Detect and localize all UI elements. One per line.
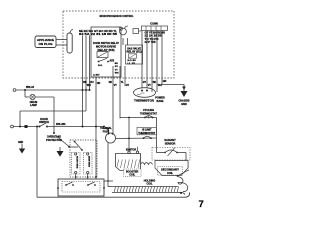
wire lamp branch drop (24, 90, 26, 97)
left main vertical (36, 127, 38, 198)
svg-text:WH: WH (115, 73, 119, 75)
svg-text:PROTECTOR: PROTECTOR (46, 139, 62, 142)
wire stub to thermal fuse left terminal (108, 128, 110, 134)
svg-text:CONN: CONN (150, 22, 158, 26)
svg-text:MAIN WDG: MAIN WDG (88, 156, 91, 167)
svg-text:SENSOR: SENSOR (165, 143, 176, 146)
thermistor (134, 88, 156, 103)
wire to power base 2 (156, 78, 158, 92)
svg-text:COIL: COIL (147, 183, 153, 186)
svg-text:GND: GND (181, 103, 187, 106)
wire GY stub (124, 66, 126, 86)
svg-text:64 5A 22 31 18 60 55: 64 5A 22 31 18 60 55 (79, 32, 118, 36)
svg-text:THERMOSTAT: THERMOSTAT (138, 132, 155, 135)
connector P1 tail (70, 30, 73, 34)
svg-text:BASE: BASE (157, 100, 164, 103)
terminal N (11, 125, 14, 128)
secondary loops (177, 170, 189, 195)
wire YL to cycling thermostat (119, 66, 121, 119)
connector strip (142, 26, 168, 30)
svg-text:7: 7 (199, 199, 204, 210)
connector P1 pill (67, 33, 72, 53)
bottom main wire (37, 193, 190, 198)
wire relay A to relay B (1) (122, 38, 124, 45)
wire BK to door switch junction (82, 36, 84, 127)
ignitor (116, 147, 153, 171)
radiant sensor (152, 139, 190, 168)
svg-text:N.O.: N.O. (98, 65, 103, 67)
wire plug to connector (upper) (56, 39, 67, 41)
svg-text:RELAY (K1): RELAY (K1) (127, 51, 142, 54)
svg-text:GY: GY (143, 81, 147, 84)
wire conn pin 2 (146, 30, 148, 78)
svg-text:SWITCH: SWITCH (39, 121, 49, 124)
svg-text:GY: GY (115, 66, 119, 68)
wire door switch to thermal fuse (47, 126, 104, 128)
svg-text:GY: GY (126, 84, 130, 87)
appliance plug box (top-left rounded) (35, 36, 56, 48)
svg-text:BU: BU (115, 63, 119, 65)
wire L1 horizontal (16, 89, 90, 91)
wire BU to line L1 (89, 36, 91, 91)
junction neutral corner (19, 126, 21, 128)
holding coil bumps (141, 163, 153, 165)
wire to ignitor left terminal (128, 118, 130, 152)
component BR (133, 29, 139, 34)
wire conn pin 1 (141, 30, 143, 78)
svg-text:OR: OR (97, 82, 101, 85)
svg-text:5BK-64: 5BK-64 (26, 86, 35, 89)
svg-text:COIL: COIL (129, 174, 135, 177)
neutral wire horizontal (20, 110, 86, 112)
neutral wire corner drop (19, 111, 21, 127)
chassis ground (178, 91, 189, 106)
svg-text:FUSE: FUSE (103, 130, 110, 133)
svg-text:BK: BK (153, 81, 157, 84)
svg-text:BU: BU (90, 81, 94, 84)
wire to power base 1 (151, 78, 153, 92)
wire to thermistor terminal 2 (146, 78, 148, 88)
svg-text:COIL: COIL (167, 172, 173, 175)
wire to thermistor terminal 1 (141, 78, 143, 88)
valve left feed (104, 143, 113, 187)
wire overload to motor (69, 146, 78, 148)
secondary coil housing and label (155, 161, 188, 176)
relay box B gas valve relay K1 (126, 45, 143, 64)
svg-text:RD: RD (109, 81, 113, 84)
motor switch solid box (58, 179, 104, 196)
start winding (72, 153, 81, 175)
main winding (84, 153, 93, 175)
svg-text:LAMP: LAMP (30, 104, 37, 107)
wire tick labels below border (83, 80, 166, 87)
svg-text:ON PLUG: ON PLUG (39, 42, 53, 46)
terminal L1 (13, 89, 16, 92)
wire WH to neutral wire (85, 36, 87, 112)
valve winding hatch band (112, 187, 179, 193)
svg-text:GND: GND (18, 142, 23, 144)
radiant sensor dashed box and contact symbol (152, 148, 190, 161)
svg-text:GY 55: GY 55 (145, 41, 157, 44)
wire relay A to relay B (2) (127, 38, 129, 45)
svg-text:IGNITOR: IGNITOR (126, 148, 137, 151)
relay contacts K5 (98, 61, 100, 63)
buzzer circle (120, 28, 127, 35)
svg-text:VT: VT (115, 69, 118, 71)
wire lamp to vertical (35, 96, 54, 98)
junction dots winding leads (75, 176, 77, 178)
hi-limit thermostat symbol (143, 137, 145, 139)
wire conn pin 4 (156, 30, 158, 78)
centrifugal switch (74, 141, 76, 143)
svg-text:L1 BU: L1 BU (93, 75, 100, 77)
drum lamp (30, 94, 35, 99)
svg-text:1BK-28A: 1BK-28A (56, 123, 66, 126)
booster coil label (124, 169, 142, 177)
motor dashed box (70, 140, 97, 177)
motor switch inner dashed contacts (62, 182, 100, 193)
svg-text:VT: VT (114, 84, 118, 87)
svg-text:WH: WH (158, 84, 162, 87)
ground motor (59, 147, 61, 151)
flame switch blade (178, 170, 190, 176)
door switch (39, 126, 41, 128)
wire start winding lead (75, 174, 77, 179)
wire long to motor switch (95, 77, 97, 179)
svg-text:THERMISTOR: THERMISTOR (134, 100, 154, 103)
thermal fuse (106, 133, 116, 143)
svg-text:YL: YL (121, 81, 125, 84)
chassis gnd wire (162, 78, 184, 91)
ground symbol lower-left (18, 142, 25, 154)
overload protector blade (55, 135, 69, 147)
svg-text:VT: VT (148, 84, 152, 87)
svg-text:AYB: AYB (110, 60, 115, 63)
svg-text:APPLIANCE: APPLIANCE (37, 38, 54, 42)
microprocessor control dashed enclosure (63, 11, 174, 78)
wire main winding lead (87, 174, 89, 179)
svg-text:THERMOSTAT: THERMOSTAT (140, 112, 157, 115)
relay box A (91, 27, 121, 77)
hi limit wire (116, 137, 157, 140)
wire conn pin 5 (161, 30, 163, 78)
wire conn pin 3 (151, 30, 153, 78)
lamp + switch labels (26, 86, 66, 126)
wire N to door switch (13, 126, 39, 128)
svg-text:START WDG: START WDG (76, 156, 79, 169)
relay coil K5 (97, 52, 108, 58)
lamp vertical to door switch wire (53, 97, 55, 133)
cycling thermostat symbol (144, 117, 146, 119)
svg-text:MICROPROCESSOR CONTROL: MICROPROCESSOR CONTROL (100, 14, 134, 18)
splice block (25, 125, 28, 128)
svg-text:L1 GY: L1 GY (128, 63, 136, 65)
cycling thermostat wire (120, 118, 156, 153)
svg-text:WH: WH (87, 84, 91, 87)
junction dots on line L1 (82, 89, 84, 91)
wire radiant sensor to secondary (185, 153, 187, 161)
junction dots on door-switch wire (82, 126, 84, 128)
wire VT to thermal fuse right terminal (112, 66, 114, 134)
wire bend into thermal fuse (104, 127, 109, 131)
svg-text:GN: GN (163, 80, 167, 83)
wire plug to connector (lower) (56, 44, 67, 46)
